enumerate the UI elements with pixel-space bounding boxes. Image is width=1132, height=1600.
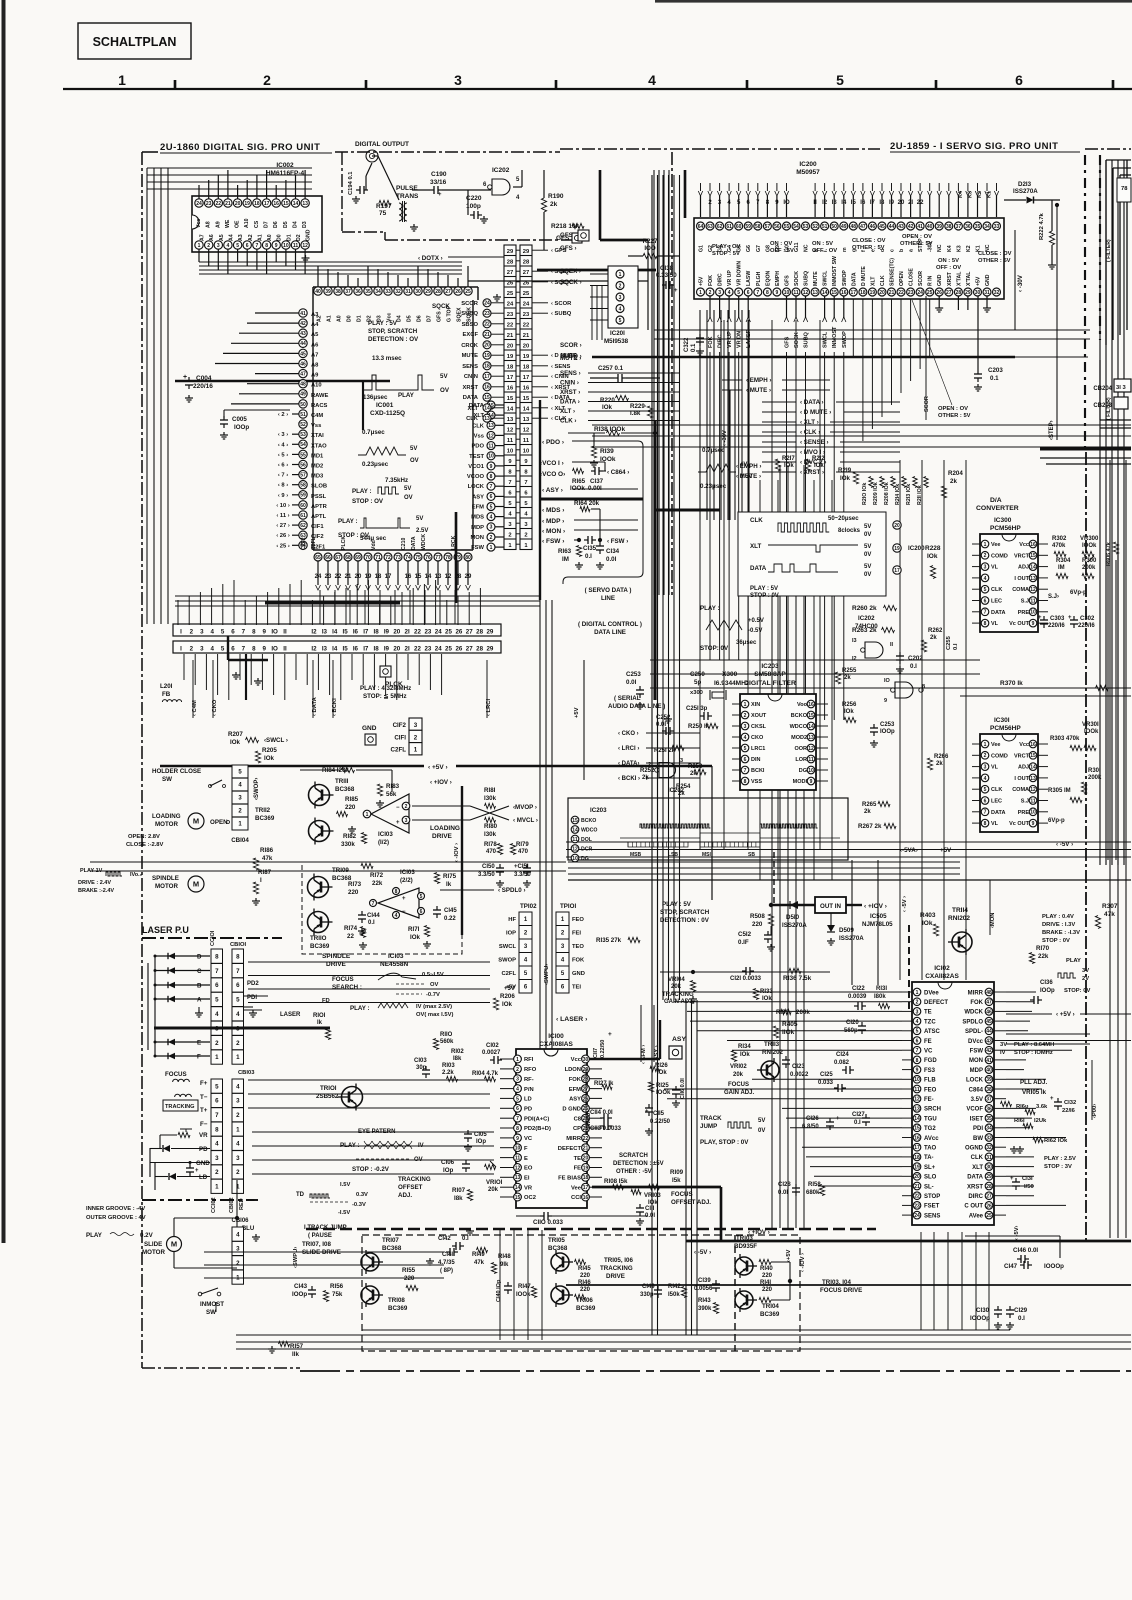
svg-text:SCOR ›: SCOR ›: [560, 342, 582, 349]
svg-text:SL+: SL+: [924, 1165, 936, 1171]
row3 thick wire: [154, 1027, 330, 1030]
svg-text:C25I 3p: C25I 3p: [686, 706, 708, 712]
svg-text:FOK: FOK: [569, 1077, 582, 1083]
svg-text:CI25: CI25: [820, 1072, 833, 1078]
svg-text:R267 2k: R267 2k: [858, 823, 882, 830]
svg-text:0.0I: 0.0I: [645, 1213, 655, 1219]
svg-text:22: 22: [414, 629, 421, 636]
svg-text:0.082: 0.082: [834, 1060, 850, 1066]
svg-text:OC2: OC2: [524, 1195, 536, 1201]
IC002 bottom pin row: [195, 241, 203, 249]
svg-text:RI72: RI72: [370, 872, 384, 879]
svg-text:16: 16: [841, 290, 847, 296]
svg-text:14: 14: [523, 406, 530, 412]
svg-text:STOP, SCRATCH: STOP, SCRATCH: [368, 328, 418, 335]
svg-text:5: 5: [744, 746, 747, 752]
svg-text:C194 0.1: C194 0.1: [348, 171, 354, 195]
svg-text:32: 32: [986, 1145, 992, 1151]
svg-text:II: II: [813, 200, 817, 206]
svg-text:CI36: CI36: [1040, 980, 1053, 986]
svg-text:29: 29: [486, 629, 493, 636]
svg-text:LD: LD: [199, 1174, 208, 1181]
svg-text:IVo.₀: IVo.₀: [130, 872, 143, 878]
svg-text:IOOp: IOOp: [880, 729, 895, 735]
svg-text:RI09: RI09: [670, 1169, 684, 1176]
svg-text:R205: R205: [262, 747, 277, 754]
svg-text:45: 45: [300, 351, 306, 357]
junction bus line: [175, 380, 390, 382]
svg-text:220: 220: [348, 889, 359, 896]
svg-text:7: 7: [516, 1116, 519, 1122]
svg-text:27: 27: [466, 646, 473, 653]
svg-text:DG: DG: [581, 856, 589, 862]
svg-text:47: 47: [986, 1000, 992, 1006]
svg-text:24: 24: [435, 646, 442, 653]
svg-text:PLCK: PLCK: [341, 536, 347, 550]
svg-text:RI45: RI45: [578, 1266, 591, 1272]
svg-text:50: 50: [300, 402, 306, 408]
svg-text:RI47: RI47: [518, 1284, 531, 1290]
svg-text:41: 41: [300, 311, 306, 317]
svg-text:Vee: Vee: [991, 742, 1000, 748]
svg-text:VL: VL: [991, 821, 999, 827]
svg-text:20: 20: [484, 343, 490, 349]
svg-text:25: 25: [986, 1213, 992, 1219]
svg-text:STOP, SCRATCH: STOP, SCRATCH: [660, 909, 710, 916]
svg-text:IV: IV: [1000, 1050, 1006, 1056]
svg-text:I4: I4: [841, 200, 847, 206]
svg-text:41: 41: [986, 1058, 992, 1064]
svg-text:I5: I5: [343, 646, 349, 653]
svg-text:IOOp: IOOp: [292, 1291, 307, 1298]
svg-text:I9: I9: [384, 646, 390, 653]
svg-text:IOp: IOp: [443, 1167, 454, 1174]
svg-text:20: 20: [393, 629, 400, 636]
svg-text:‹ -30V: ‹ -30V: [722, 430, 728, 446]
svg-text:1: 1: [619, 272, 622, 278]
IC202 gate C: [659, 763, 676, 778]
svg-text:D MUTE: D MUTE: [861, 266, 867, 286]
svg-text:IOk: IOk: [230, 739, 241, 746]
svg-text:‹ SENSE ›: ‹ SENSE ›: [800, 439, 829, 446]
svg-text:26: 26: [455, 646, 462, 653]
svg-text:LOADING: LOADING: [430, 825, 460, 832]
svg-text:52: 52: [812, 224, 818, 230]
svg-text:CI30: CI30: [976, 1307, 990, 1314]
svg-text:A: A: [197, 997, 202, 1004]
svg-text:FOCUS DRIVE: FOCUS DRIVE: [820, 1287, 862, 1294]
svg-text:BC369: BC369: [388, 1305, 408, 1312]
svg-text:LINE: LINE: [601, 595, 615, 602]
svg-text:IC001: IC001: [376, 402, 394, 409]
svg-text:39: 39: [325, 289, 331, 295]
svg-text:S.J: S.J: [1021, 599, 1029, 605]
svg-text:5: 5: [420, 894, 423, 900]
IC002 top wires: [198, 185, 200, 199]
svg-text:SBSO: SBSO: [462, 322, 479, 328]
FSW second arrow: [598, 538, 602, 542]
svg-text:‹ MON ›: ‹ MON ›: [542, 528, 565, 535]
svg-text:‹-5VA›: ‹-5VA›: [900, 847, 918, 854]
svg-text:OV: OV: [410, 458, 419, 464]
svg-text:RI35 27k: RI35 27k: [596, 937, 622, 944]
svg-text:8clocks: 8clocks: [838, 528, 861, 534]
svg-text:‹SWOP›: ‹SWOP›: [254, 778, 260, 800]
svg-text:OPEN: OPEN: [899, 271, 905, 286]
svg-text:CBI02: CBI02: [229, 1197, 235, 1213]
IC002 left bus wires: [147, 167, 312, 169]
IC001 body outline: [313, 286, 478, 288]
svg-text:8: 8: [766, 290, 769, 296]
svg-text:D7: D7: [427, 315, 433, 322]
svg-text:C864: C864: [969, 1087, 984, 1093]
svg-text:‹ 25 ›: ‹ 25 ›: [276, 543, 290, 549]
svg-text:2U-1860 DIGITAL SIG. PRO UNI: 2U-1860 DIGITAL SIG. PRO UNIT: [160, 142, 320, 153]
svg-text:220: 220: [762, 1287, 773, 1293]
svg-text:8: 8: [516, 1126, 519, 1132]
svg-text:18: 18: [914, 1155, 920, 1161]
svg-text:FOK: FOK: [970, 1000, 983, 1006]
svg-text:5V: 5V: [410, 446, 417, 452]
svg-text:R405: R405: [782, 1021, 798, 1028]
svg-text:CCIOI: CCIOI: [210, 930, 216, 946]
svg-text:24: 24: [917, 290, 923, 296]
svg-text:11: 11: [293, 243, 299, 249]
svg-text:( FILTER): ( FILTER): [1106, 239, 1112, 262]
svg-text:220: 220: [580, 1287, 591, 1293]
svg-text:8: 8: [922, 684, 925, 690]
svg-text:VC: VC: [924, 1049, 933, 1055]
svg-text:0.I: 0.I: [585, 553, 592, 560]
svg-text:D1: D1: [357, 315, 363, 322]
svg-text:TRII4: TRII4: [952, 907, 968, 914]
svg-text:SWOP: SWOP: [842, 270, 848, 286]
svg-text:TRI05: TRI05: [548, 1237, 565, 1244]
svg-text:A8: A8: [311, 363, 319, 369]
svg-text:1: 1: [236, 1126, 240, 1133]
svg-text:Vc OUT: Vc OUT: [1009, 621, 1030, 627]
svg-text:7: 7: [215, 1112, 219, 1119]
svg-text:0.I: 0.I: [368, 920, 375, 926]
svg-text:31: 31: [986, 1155, 992, 1161]
svg-text:SLIDE: SLIDE: [144, 1241, 162, 1248]
svg-text:14: 14: [808, 724, 814, 730]
svg-text:12: 12: [488, 433, 494, 439]
svg-text:BC368: BC368: [335, 786, 355, 793]
svg-text:9: 9: [262, 629, 266, 636]
svg-text:E: E: [197, 1040, 201, 1047]
svg-text:TRIIO: TRIIO: [310, 935, 327, 942]
svg-text:75: 75: [415, 555, 421, 561]
svg-text:PD2: PD2: [247, 981, 259, 987]
svg-text:2I: 2I: [405, 629, 410, 636]
svg-text:35: 35: [975, 224, 981, 230]
svg-text:0.23μsec: 0.23μsec: [362, 461, 389, 468]
svg-text:5: 5: [221, 646, 225, 653]
svg-text:6: 6: [246, 243, 249, 249]
svg-text:4: 4: [236, 1083, 240, 1090]
svg-text:200k: 200k: [1088, 775, 1102, 781]
svg-text:R253: R253: [688, 764, 703, 770]
svg-text:16: 16: [808, 702, 814, 708]
svg-text:+: +: [1068, 615, 1072, 621]
svg-text:AUDIO DATA LINE ): AUDIO DATA LINE ): [608, 703, 665, 710]
svg-text:OFFSET ADJ.: OFFSET ADJ.: [671, 1199, 711, 1206]
IC001 left pin column (41-64): [299, 309, 307, 317]
svg-text:INMOST: INMOST: [832, 326, 838, 348]
svg-text:I50k: I50k: [668, 1292, 680, 1298]
svg-text:28: 28: [956, 290, 962, 296]
LD diode and cap: [169, 1173, 176, 1180]
svg-text:‹STEP›: ‹STEP›: [1049, 420, 1055, 440]
svg-text:TEST: TEST: [469, 454, 484, 460]
svg-text:6: 6: [744, 757, 747, 763]
svg-text:RI03: RI03: [442, 1063, 455, 1069]
svg-text:CLK: CLK: [750, 517, 763, 524]
svg-text:10: 10: [808, 768, 814, 774]
svg-text:7: 7: [372, 901, 375, 907]
svg-text:53: 53: [803, 224, 809, 230]
svg-text:SUBQ: SUBQ: [461, 311, 478, 317]
svg-text:C2F2: C2F2: [301, 537, 307, 550]
svg-text:5V: 5V: [864, 564, 871, 570]
svg-text:7.35kHz: 7.35kHz: [385, 477, 408, 484]
svg-text:330p: 330p: [640, 1292, 654, 1298]
laser left verticals: [149, 1148, 151, 1177]
dash-dot verticals right: [1084, 155, 1086, 448]
svg-text:36: 36: [986, 1106, 992, 1112]
svg-text:19: 19: [914, 1165, 920, 1171]
svg-text:5: 5: [215, 997, 219, 1004]
svg-text:7: 7: [744, 768, 747, 774]
svg-text:RI25: RI25: [656, 1083, 669, 1089]
svg-text:RNI202: RNI202: [762, 1049, 784, 1056]
VR pot: [178, 1132, 190, 1137]
svg-text:‹SWPU›: ‹SWPU›: [544, 964, 550, 985]
svg-text:VRI04: VRI04: [668, 977, 685, 983]
svg-text:SWCL: SWCL: [823, 331, 829, 348]
svg-text:RIOI: RIOI: [313, 1013, 326, 1019]
IC002 top pin row: [195, 199, 203, 207]
svg-text:CI42: CI42: [438, 1236, 451, 1242]
svg-text:62: 62: [717, 224, 723, 230]
svg-text:16: 16: [583, 1195, 589, 1201]
svg-text:STOP: ≦ 5MHz: STOP: ≦ 5MHz: [363, 693, 407, 700]
thick bus line y449: [1040, 448, 1131, 451]
svg-text:CCI02: CCI02: [211, 1197, 217, 1213]
svg-text:IOk: IOk: [740, 1052, 750, 1058]
svg-text:‹ DOTX ›: ‹ DOTX ›: [418, 255, 443, 262]
svg-text:I OUT: I OUT: [1014, 776, 1029, 782]
svg-text:220: 220: [752, 921, 763, 928]
svg-text:CI22: CI22: [852, 986, 865, 992]
svg-text:IOOOp: IOOOp: [970, 1315, 990, 1322]
svg-text:‹ MVCL ›: ‹ MVCL ›: [513, 817, 538, 824]
svg-text:A6: A6: [311, 342, 319, 348]
laser unit top dash border: [142, 937, 282, 939]
svg-text:G1: G1: [699, 245, 705, 252]
svg-text:CI35: CI35: [583, 545, 597, 552]
svg-text:2: 2: [744, 713, 747, 719]
svg-text:B: B: [197, 983, 202, 990]
svg-text:R2I4 IOk: R2I4 IOk: [895, 484, 901, 505]
svg-text:DIGITAL OUTPUT: DIGITAL OUTPUT: [355, 141, 409, 148]
svg-text:RI85: RI85: [345, 796, 359, 803]
svg-text:Vcc: Vcc: [571, 1057, 582, 1063]
svg-text:PLAY :: PLAY :: [700, 605, 720, 612]
svg-text:13: 13: [1030, 576, 1036, 582]
svg-text:59: 59: [300, 493, 306, 499]
svg-text:TRI05, I06: TRI05, I06: [604, 1257, 633, 1264]
svg-text:SENSE(TC): SENSE(TC): [890, 258, 896, 286]
svg-text:PD: PD: [524, 1107, 532, 1113]
svg-text:0.5~I.5V: 0.5~I.5V: [422, 972, 444, 978]
svg-text:TE: TE: [924, 1010, 932, 1016]
svg-text:19: 19: [583, 1165, 589, 1171]
svg-text:IIOk: IIOk: [782, 1029, 795, 1036]
svg-text:0.0027: 0.0027: [482, 1050, 501, 1056]
svg-text:I5: I5: [343, 629, 349, 636]
svg-text:WE: WE: [225, 219, 231, 228]
svg-text:VC: VC: [524, 1136, 533, 1142]
svg-text:HM6116FP-4: HM6116FP-4: [266, 170, 305, 177]
svg-text:PLAY : 5V: PLAY : 5V: [368, 320, 398, 327]
svg-text:PULSE: PULSE: [396, 185, 418, 192]
svg-text:I8: I8: [879, 200, 885, 206]
svg-text:15: 15: [808, 713, 814, 719]
svg-text:K1: K1: [987, 191, 993, 198]
svg-text:R222 4.7k: R222 4.7k: [1039, 212, 1045, 240]
svg-text:1: 1: [118, 72, 126, 88]
svg-text:CCI: CCI: [571, 1195, 581, 1201]
svg-text:4: 4: [215, 1141, 219, 1148]
svg-text:CI32: CI32: [1064, 1100, 1076, 1106]
svg-text:20: 20: [523, 343, 529, 349]
wires out of IC102 right: [1006, 991, 1036, 993]
svg-text:CI45: CI45: [444, 908, 457, 914]
svg-text:DATA: DATA: [967, 1175, 983, 1181]
svg-text:0.0056: 0.0056: [694, 1286, 713, 1292]
svg-text:0.IF: 0.IF: [738, 939, 749, 946]
svg-text:41: 41: [917, 224, 923, 230]
svg-text:CI05: CI05: [474, 1132, 487, 1138]
svg-text:56: 56: [774, 224, 780, 230]
svg-text:CIIO 0.033: CIIO 0.033: [533, 1219, 563, 1226]
svg-text:ADJ.: ADJ.: [398, 1192, 412, 1199]
verticals below IC100: [499, 1230, 501, 1340]
svg-text:‹ BCKI ›: ‹ BCKI ›: [618, 776, 640, 782]
svg-text:3V: 3V: [1082, 968, 1089, 974]
svg-text:IOk: IOk: [922, 920, 933, 927]
svg-text:MIRR: MIRR: [968, 990, 984, 996]
svg-text:4: 4: [648, 72, 656, 88]
svg-text:2: 2: [524, 532, 527, 538]
svg-text:R25I 2k: R25I 2k: [654, 748, 676, 754]
svg-text:LOCK: LOCK: [966, 1078, 984, 1084]
svg-text:CRCK: CRCK: [461, 343, 479, 349]
svg-text:CB203: CB203: [1093, 403, 1112, 409]
svg-text:46: 46: [870, 224, 876, 230]
wires from laser pu to IC100: [248, 961, 490, 963]
svg-text:C253: C253: [626, 671, 641, 678]
svg-text:PLAY : 4.32I8MHz: PLAY : 4.32I8MHz: [360, 685, 411, 692]
svg-text:SEARCH :: SEARCH :: [332, 984, 362, 991]
svg-text:5V: 5V: [864, 544, 871, 550]
svg-text:0.0022: 0.0022: [790, 1072, 809, 1078]
svg-text:6: 6: [420, 909, 423, 915]
svg-text:RI79: RI79: [516, 842, 529, 848]
svg-text:P/N: P/N: [524, 1087, 534, 1093]
svg-text:PLAY : OV: PLAY : OV: [712, 244, 740, 250]
svg-text:20: 20: [894, 523, 900, 529]
svg-text:74HC00: 74HC00: [855, 623, 878, 630]
svg-text:35: 35: [986, 1116, 992, 1122]
svg-text:R260 2k: R260 2k: [852, 605, 877, 612]
svg-text:4: 4: [236, 1011, 240, 1018]
svg-text:‹ -5V ›: ‹ -5V ›: [902, 896, 908, 912]
svg-text:STOP: 0V: STOP: 0V: [1064, 988, 1090, 994]
svg-text:‹ DATA ›: ‹ DATA ›: [800, 399, 824, 406]
svg-text:PCM56HP: PCM56HP: [990, 725, 1021, 732]
svg-text:EYE PATERN: EYE PATERN: [358, 1129, 395, 1135]
bottom right long wires: [686, 1240, 1131, 1243]
svg-text:PRE: PRE: [1018, 610, 1030, 616]
svg-text:3: 3: [215, 1155, 219, 1162]
svg-text:IOk: IOk: [264, 755, 275, 762]
svg-text:10: 10: [572, 856, 578, 862]
svg-text:39: 39: [936, 224, 942, 230]
unit border bottom dash-dot: [142, 1367, 300, 1369]
svg-text:9: 9: [1032, 821, 1035, 827]
svg-text:ICI00: ICI00: [548, 1033, 564, 1040]
svg-text:4: 4: [490, 515, 493, 521]
svg-text:CIFI: CIFI: [394, 734, 406, 741]
IC200 bottom gnds: [938, 296, 940, 305]
svg-text:7: 7: [756, 290, 759, 296]
svg-text:27: 27: [466, 629, 473, 636]
svg-text:II: II: [890, 642, 894, 648]
svg-text:39: 39: [986, 1077, 992, 1083]
svg-text:75: 75: [379, 210, 387, 217]
svg-text:33: 33: [986, 1135, 992, 1141]
svg-text:XLT: XLT: [972, 1165, 983, 1171]
svg-text:15: 15: [914, 1126, 920, 1132]
svg-text:( 8P): ( 8P): [440, 1268, 453, 1274]
svg-text:PLAY :: PLAY :: [338, 518, 358, 525]
svg-text:+: +: [438, 192, 442, 198]
svg-text:SM58I8AP: SM58I8AP: [754, 671, 786, 678]
svg-text:DEFECT: DEFECT: [924, 1000, 948, 1006]
svg-text:DVee: DVee: [924, 990, 939, 996]
svg-text:Vee: Vee: [991, 542, 1000, 548]
svg-text:IOk: IOk: [927, 553, 938, 560]
svg-text:M5I9538: M5I9538: [604, 338, 629, 345]
svg-text:FEI: FEI: [572, 931, 581, 937]
svg-text:T+: T+: [200, 1107, 208, 1114]
svg-text:F−: F−: [200, 1121, 208, 1128]
svg-text:44: 44: [986, 1029, 992, 1035]
svg-text:470k: 470k: [1052, 543, 1066, 549]
svg-text:RI56: RI56: [330, 1283, 344, 1290]
svg-text:‹ FSW ›: ‹ FSW ›: [542, 538, 564, 545]
svg-text:47: 47: [860, 224, 866, 230]
svg-text:m: m: [842, 247, 848, 252]
svg-text:IO: IO: [884, 678, 891, 684]
svg-text:R255: R255: [842, 668, 857, 674]
svg-text:30: 30: [583, 1057, 589, 1063]
svg-text:0.I: 0.I: [910, 663, 917, 670]
svg-text:SOCK: SOCK: [794, 332, 800, 348]
